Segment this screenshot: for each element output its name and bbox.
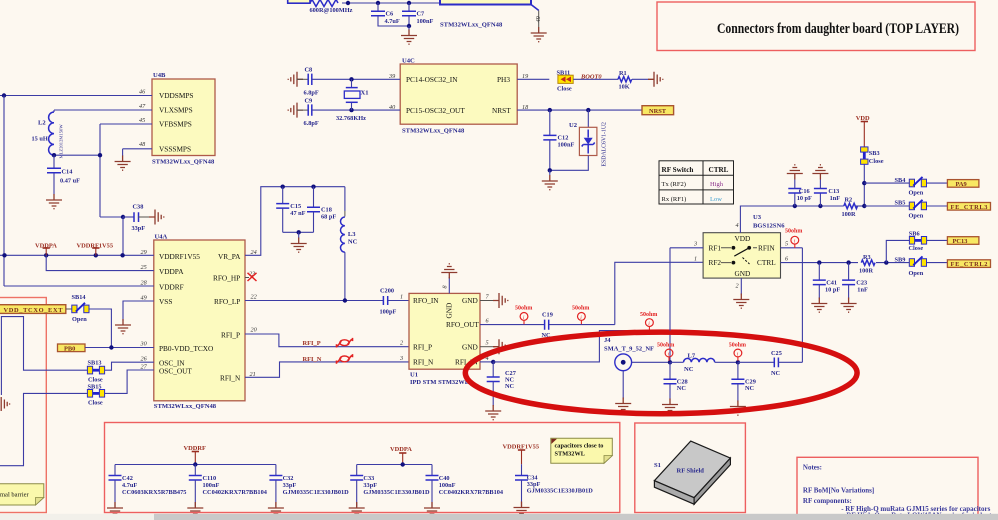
net label RFI_N (303, 356, 322, 363)
svg-text:Open: Open (909, 189, 924, 196)
solder bridge SB9 (895, 256, 927, 277)
wire OSC_IN pin 26 (104, 362, 154, 370)
svg-text:46: 46 (139, 89, 146, 96)
svg-text:OSC_OUT: OSC_OUT (159, 367, 192, 376)
wire SB6 riser (886, 240, 909, 262)
svg-text:C25: C25 (771, 350, 782, 357)
wire VDDPA rail (357, 462, 432, 466)
capacitor C42 (109, 465, 187, 507)
svg-text:VDD_TCXO_EXT: VDD_TCXO_EXT (4, 307, 64, 314)
power label VDDPA (35, 242, 57, 255)
svg-text:5: 5 (486, 340, 489, 347)
probe 50ohm #2 (572, 306, 589, 325)
svg-text:VDDPA: VDDPA (159, 267, 184, 276)
ground under C42 (107, 502, 123, 517)
svg-text:45: 45 (139, 117, 145, 124)
ground under C23 (841, 298, 857, 313)
svg-text:RFO_HP: RFO_HP (213, 273, 240, 282)
svg-text:VDD: VDD (735, 234, 751, 243)
capacitor C15 (276, 187, 305, 233)
svg-text:C19: C19 (542, 312, 553, 319)
svg-text:C14: C14 (62, 168, 74, 175)
pin 49 wire of top block (531, 5, 542, 28)
svg-text:Rx (RF1): Rx (RF1) (662, 196, 687, 203)
capacitor C7 (402, 3, 433, 26)
wire PH3 pin 19 (517, 78, 549, 80)
svg-text:47: 47 (139, 103, 146, 110)
capacitor C28 (664, 362, 688, 399)
port PA9 (947, 180, 979, 188)
pin numbers U3 (693, 222, 789, 290)
svg-text:U2: U2 (569, 122, 578, 129)
svg-text:48: 48 (139, 141, 146, 148)
svg-text:SB6: SB6 (909, 231, 920, 238)
U3 switch contacts (721, 246, 757, 265)
svg-text:VDDRF1V55: VDDRF1V55 (159, 252, 200, 261)
solder bridge SB15 (87, 384, 104, 407)
svg-text:C42: C42 (122, 475, 133, 482)
power label VDDRF1V55 (503, 443, 540, 464)
wire SB14 to PB0 rail (89, 309, 111, 348)
svg-text:VDDSMPS: VDDSMPS (159, 91, 193, 100)
ground under C15/C18 (291, 238, 307, 253)
probe 50ohm #6 (785, 228, 802, 248)
svg-text:RFI_N: RFI_N (220, 374, 241, 383)
port FE_CTRL2 (947, 260, 990, 268)
svg-text:3: 3 (693, 241, 697, 248)
svg-text:STM32WLxx_QFN48: STM32WLxx_QFN48 (402, 128, 465, 135)
svg-text:68 pF: 68 pF (321, 214, 336, 221)
pin numbers U1 (399, 285, 490, 362)
svg-text:1nF: 1nF (830, 195, 841, 202)
IC U4A (154, 234, 245, 411)
ground under pin 48 (115, 156, 131, 171)
wire VDDPA pin 25 (46, 255, 154, 270)
capacitor C34 (515, 464, 593, 506)
svg-text:GND: GND (462, 342, 478, 351)
svg-text:L2: L2 (38, 120, 46, 127)
capacitor C8 (297, 67, 401, 97)
svg-text:30: 30 (140, 341, 148, 348)
ground under C27 (485, 405, 501, 420)
svg-text:SB14: SB14 (72, 294, 87, 301)
power label VDD (856, 115, 870, 147)
svg-text:SMA_T_9_52_NF: SMA_T_9_52_NF (604, 345, 654, 352)
wire SB5 branch (864, 205, 909, 207)
wire RFI_IN detour over J4 (493, 331, 670, 363)
wire left vertical rail x=4 (3, 96, 5, 287)
capacitor C14 (47, 155, 80, 194)
svg-text:Notes:: Notes: (803, 463, 822, 471)
notes text block (803, 463, 998, 519)
svg-text:PC15-OSC32_OUT: PC15-OSC32_OUT (406, 106, 465, 115)
svg-text:S1: S1 (654, 462, 661, 469)
svg-text:C38: C38 (133, 204, 144, 211)
pin numbers U4A left (140, 249, 148, 371)
svg-text:Tx (RF2): Tx (RF2) (662, 181, 686, 188)
wire VDDSMPS pin 46 (0, 93, 152, 97)
diff pair marker RFI_N (337, 354, 353, 364)
ground under C40 (424, 502, 440, 517)
svg-text:6.8pF: 6.8pF (304, 120, 319, 127)
junction C6/C7 bottom (407, 24, 411, 30)
wire RF1 riser from RFI net (670, 248, 703, 331)
svg-text:50ohm: 50ohm (640, 312, 657, 318)
svg-text:100nF: 100nF (417, 18, 434, 25)
svg-text:Connectors from daughter board: Connectors from daughter board (TOP LAYE… (717, 21, 959, 37)
power label VDDPA (390, 446, 412, 465)
capacitor C25 (series NC) (738, 350, 803, 377)
earth left of C8 (288, 72, 303, 87)
ground above C13 (inverted) (812, 165, 828, 180)
node C29 junction (736, 360, 740, 364)
connector J4 SMA (604, 337, 670, 371)
svg-text:2: 2 (400, 340, 403, 347)
svg-text:NC: NC (771, 370, 781, 377)
svg-text:U4C: U4C (402, 58, 415, 65)
svg-text:R1: R1 (619, 70, 627, 77)
svg-text:PC14-OSC32_IN: PC14-OSC32_IN (406, 75, 458, 84)
pin 5 stub to earth (480, 339, 508, 354)
svg-text:U3: U3 (753, 214, 762, 221)
earth right of C38 (149, 210, 164, 225)
net label BOOT0 (580, 73, 602, 80)
svg-text:26: 26 (141, 356, 148, 363)
svg-text:4.7uF: 4.7uF (122, 482, 137, 489)
svg-text:50ohm: 50ohm (785, 228, 802, 234)
svg-text:6.8pF: 6.8pF (304, 90, 319, 97)
wire VDD pin 4 riser (740, 206, 843, 233)
wire SB15 left down (0, 393, 88, 465)
capacitor C9 (297, 97, 401, 127)
svg-text:0.47 uF: 0.47 uF (60, 177, 80, 184)
svg-text:VR_PA: VR_PA (218, 252, 241, 261)
svg-text:Close: Close (88, 377, 103, 384)
svg-text:VDDPA: VDDPA (390, 446, 412, 453)
svg-text:L3: L3 (348, 231, 356, 238)
svg-text:FE_CTRL2: FE_CTRL2 (951, 261, 988, 268)
wire RFI_P jog (245, 334, 409, 347)
wire VFB to C38 junction (100, 215, 125, 219)
svg-text:STM32WLxx_QFN48: STM32WLxx_QFN48 (440, 22, 503, 29)
net label RFI_P (303, 340, 321, 347)
wire C38 riser to pin29 rail (122, 217, 124, 255)
ground under U3 (733, 294, 749, 309)
svg-text:PB0: PB0 (64, 345, 75, 352)
probe 50ohm #3 on detour (640, 312, 657, 331)
thermal barrier red box (left) (0, 298, 46, 513)
wire U1 top GND pin 8 (448, 277, 450, 293)
pin 7 stub to earth (480, 293, 508, 308)
svg-text:32.768KHz: 32.768KHz (336, 115, 366, 122)
wire VFB vertical x=100 (99, 124, 101, 217)
capacitor C16 (788, 180, 812, 207)
port FE_CTRL3 (947, 203, 990, 211)
inductor L3 (341, 187, 358, 301)
svg-text:C12: C12 (558, 134, 569, 141)
inductor L7 (NC) (670, 352, 738, 373)
svg-text:GND: GND (735, 269, 751, 278)
capacitor C12 (543, 110, 574, 170)
svg-text:100nF: 100nF (203, 482, 220, 489)
ground under C12/U2 (542, 175, 558, 190)
svg-text:50ohm: 50ohm (657, 343, 674, 349)
svg-text:Close: Close (909, 245, 924, 252)
notes red box (797, 457, 978, 518)
svg-text:U4B: U4B (153, 72, 166, 79)
svg-text:CTRL: CTRL (757, 258, 776, 267)
ground above C16 (inverted) (787, 165, 803, 180)
svg-text:100nF: 100nF (558, 141, 575, 148)
svg-text:20: 20 (251, 327, 258, 334)
svg-text:10 pF: 10 pF (825, 287, 840, 294)
capacitor C27 (487, 362, 516, 406)
svg-text:CC0603KRX5R7BB475: CC0603KRX5R7BB475 (122, 489, 186, 496)
port PB0 (58, 344, 86, 352)
svg-text:2: 2 (736, 283, 739, 290)
solder bridge SB14 (66, 294, 89, 323)
thermal barrier sticky note (0, 484, 44, 505)
wire RFI_IN pin 4 with C27 junction (480, 360, 495, 364)
svg-text:10 pF: 10 pF (797, 195, 812, 202)
ground top right (531, 27, 547, 42)
ground under C14 (46, 194, 62, 209)
earth left of C9 (288, 103, 303, 118)
pin numbers U4C (388, 73, 529, 111)
capacitor C29 (731, 362, 755, 401)
ground under C34 (514, 502, 530, 517)
svg-text:PA9: PA9 (956, 181, 967, 188)
svg-text:C16: C16 (799, 188, 810, 195)
svg-text:J4: J4 (604, 337, 611, 344)
svg-text:RFI_N: RFI_N (303, 356, 322, 363)
resistor R1 (618, 70, 649, 91)
svg-text:25: 25 (141, 264, 147, 271)
svg-text:NRST: NRST (649, 108, 667, 115)
svg-text:SB5: SB5 (895, 199, 906, 206)
svg-text:100nF: 100nF (439, 482, 456, 489)
no-connect X on pin 23 (245, 273, 257, 281)
svg-text:C110: C110 (203, 475, 217, 482)
wire RFO_LP pin 22 (245, 298, 383, 302)
solder bridge SB3 (vertical close) (861, 147, 884, 165)
svg-text:L7: L7 (688, 352, 696, 359)
crystal X1 (336, 77, 369, 122)
IC U1 (409, 293, 480, 386)
capacitor C38 (123, 204, 149, 233)
wire SB4 branch (864, 182, 909, 184)
capacitor C32 (269, 465, 349, 507)
ground under VSS (115, 319, 131, 334)
IC U4C (400, 58, 517, 135)
node C15/C18 top junctions (281, 185, 316, 189)
capacitor C18 (307, 187, 336, 233)
svg-text:R3: R3 (863, 254, 871, 261)
svg-text:50ohm: 50ohm (729, 343, 746, 349)
svg-text:VSSSMPS: VSSSMPS (159, 144, 191, 153)
wire RFO_OUT pin 6 (480, 324, 544, 326)
power label VDDRF1V55 (77, 242, 114, 255)
svg-text:SB15: SB15 (88, 384, 102, 391)
solder bridge SB5 (895, 199, 927, 219)
svg-text:GND: GND (462, 296, 478, 305)
svg-text:50ohm: 50ohm (515, 306, 532, 312)
wire VSS pin 49 (123, 301, 154, 321)
svg-text:RFI_P: RFI_P (303, 340, 321, 347)
svg-text:C9: C9 (305, 97, 313, 104)
svg-text:RFI_P: RFI_P (221, 330, 240, 339)
solder bridge SB6 (909, 231, 927, 253)
wire U3 GND pin 2 (740, 278, 742, 294)
solder bridge SB11 (557, 70, 574, 93)
probe 50ohm #5 (729, 343, 746, 361)
svg-text:SB9: SB9 (895, 256, 906, 263)
svg-text:RFO_OUT: RFO_OUT (446, 320, 479, 329)
diff pair marker RFI_P (337, 338, 353, 348)
ground above U1 (inverted) (441, 264, 457, 279)
svg-text:mal barrier: mal barrier (0, 492, 30, 499)
svg-text:X1: X1 (361, 90, 369, 97)
svg-text:4: 4 (736, 222, 739, 229)
svg-text:Open: Open (72, 316, 87, 323)
svg-text:U4A: U4A (155, 234, 168, 241)
IC U3 (703, 214, 785, 278)
pin numbers U4A right (249, 249, 258, 378)
wire L2 bottom to VFB rail (52, 153, 102, 157)
svg-text:C15: C15 (290, 203, 301, 210)
ESD diode U2 (548, 110, 608, 175)
wire VLXSMPS pin 47 (54, 109, 152, 111)
svg-text:High: High (710, 181, 724, 188)
svg-text:3: 3 (399, 355, 403, 362)
power label VDDRF (184, 445, 206, 465)
svg-text:VSS: VSS (159, 297, 172, 306)
inductor L2 (32, 110, 64, 159)
red highlight ellipse (465, 332, 857, 414)
U4D yellow box fragment (cut off at top) (440, 0, 531, 29)
svg-text:C13: C13 (828, 188, 839, 195)
wire RFIN riser (801, 248, 803, 362)
svg-text:SB11: SB11 (557, 70, 571, 77)
wire SB3 down to rails (862, 164, 866, 208)
svg-text:RFO_LP: RFO_LP (214, 297, 240, 306)
wire RFI_N jog (245, 362, 409, 377)
svg-text:NC: NC (348, 238, 358, 245)
capacitor C33 (350, 465, 430, 507)
earth right of R1 (648, 72, 663, 87)
wire C15/C18 bottoms (283, 230, 314, 238)
capacitor C40 (426, 465, 504, 507)
svg-text:Close: Close (869, 158, 884, 165)
capacitor C23 (842, 263, 868, 299)
svg-text:C23: C23 (856, 280, 867, 287)
ferrite bead L5 (cut off at top) (288, 0, 353, 14)
title box (connectors from daughter board) (657, 2, 975, 51)
ground under C41 (811, 298, 827, 313)
svg-text:C33: C33 (363, 475, 374, 482)
svg-text:RFI_P: RFI_P (413, 342, 432, 351)
svg-text:VLXSMPS: VLXSMPS (159, 106, 193, 115)
ground under C110 (187, 502, 203, 517)
node RFI_IN / C28 junction (668, 360, 672, 364)
port NRST (642, 106, 674, 115)
svg-text:RF BoM[No Variations]: RF BoM[No Variations] (803, 486, 874, 494)
svg-text:C6: C6 (386, 10, 394, 17)
svg-text:600R@100MHz: 600R@100MHz (310, 7, 353, 14)
svg-text:C7: C7 (417, 10, 425, 17)
wire top rail (342, 2, 440, 4)
svg-text:SB13: SB13 (88, 360, 102, 367)
wire RFIN pin 5 stub (781, 247, 803, 249)
shield S1 3D body (654, 441, 730, 504)
svg-text:C18: C18 (321, 207, 332, 214)
wire SB4 to PA9 (927, 182, 948, 184)
wire SB5 to FE_CTRL3 (927, 205, 948, 207)
wire PB0 to pin 30 (85, 345, 154, 349)
svg-text:VFBSMPS: VFBSMPS (159, 120, 192, 129)
svg-text:RF Shield: RF Shield (677, 468, 705, 475)
svg-text:1nF: 1nF (857, 287, 868, 294)
svg-text:GJM0335C1E330JB01D: GJM0335C1E330JB01D (283, 489, 350, 496)
svg-text:FE_CTRL3: FE_CTRL3 (951, 204, 988, 211)
port PC13 (947, 237, 979, 245)
svg-text:NRST: NRST (492, 106, 511, 115)
svg-text:Close: Close (557, 86, 572, 93)
svg-text:100pF: 100pF (380, 309, 397, 316)
svg-text:SB4: SB4 (895, 177, 907, 184)
ground under C29 (730, 401, 746, 416)
probe 50ohm #1 (515, 306, 532, 325)
svg-text:22: 22 (251, 294, 257, 301)
capacitor C19 (series NC) (542, 312, 615, 340)
svg-text:C8: C8 (305, 67, 313, 74)
svg-text:GJM0335C1E330JB01D: GJM0335C1E330JB01D (363, 489, 430, 496)
svg-text:50ohm: 50ohm (572, 306, 589, 312)
svg-text:100R: 100R (859, 267, 873, 274)
svg-text:PH3: PH3 (497, 75, 510, 84)
bottom gray strip (0, 514, 998, 520)
svg-text:NC: NC (745, 385, 755, 392)
power rail pin 29 (0, 253, 154, 257)
wire VFBSMPS pin 45 (100, 123, 152, 125)
node top rail junctions (346, 1, 411, 5)
decoupling caps red box (bottom) (105, 423, 620, 513)
wire SB11 to R1 (573, 78, 618, 80)
svg-text:1: 1 (694, 255, 697, 262)
wire VDDRF pin 28 (4, 285, 154, 287)
svg-text:5: 5 (785, 241, 788, 248)
svg-text:STM32WLxx_QFN48: STM32WLxx_QFN48 (152, 159, 215, 166)
svg-text:33pF: 33pF (283, 482, 297, 489)
svg-text:MLZ2012M150W: MLZ2012M150W (59, 124, 64, 159)
wire NRST pin 18 (517, 108, 642, 112)
wire VDDRF rail (115, 462, 276, 466)
RF shield red box (635, 423, 746, 513)
svg-text:C200: C200 (380, 288, 394, 295)
svg-text:Open: Open (909, 270, 924, 277)
svg-text:RFI_N: RFI_N (413, 358, 434, 367)
svg-text:10K: 10K (619, 83, 630, 90)
svg-text:PB0-VDD_TCXO: PB0-VDD_TCXO (159, 344, 213, 353)
svg-text:PC13: PC13 (953, 238, 968, 245)
svg-text:STM32WLxx_QFN48: STM32WLxx_QFN48 (154, 403, 217, 410)
wire OSC_OUT pin 27 (104, 370, 154, 393)
svg-text:GJM0335C1E330JB01D: GJM0335C1E330JB01D (527, 488, 594, 495)
svg-text:15 uH: 15 uH (32, 136, 48, 143)
svg-text:Close: Close (88, 400, 103, 407)
resistor R3 (858, 254, 876, 275)
svg-text:RF1: RF1 (709, 243, 722, 252)
